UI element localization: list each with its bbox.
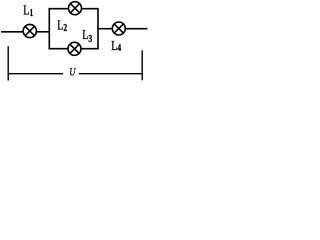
voltage bracket right bar — [141, 50, 143, 80]
voltage bracket line left — [8, 73, 64, 75]
wire top branch left — [49, 8, 69, 10]
wire L1 to node A — [36, 31, 50, 33]
wire top branch right — [81, 8, 98, 10]
lamp L1 — [23, 24, 36, 37]
wire bottom branch right — [81, 48, 98, 50]
wire left feed — [1, 31, 23, 33]
svg-text:L3: L3 — [82, 27, 92, 44]
svg-text:L1: L1 — [23, 2, 33, 18]
node A left junction vertical — [48, 8, 50, 50]
svg-text:U: U — [69, 67, 76, 79]
lamp L2 — [69, 2, 82, 15]
svg-text:L4: L4 — [111, 38, 121, 54]
node B right junction vertical — [97, 8, 99, 50]
wire right feed — [125, 28, 147, 30]
wire bottom branch left — [49, 48, 68, 50]
voltage bracket left bar — [7, 46, 9, 80]
svg-text:L2: L2 — [57, 17, 67, 33]
voltage bracket line right — [79, 73, 143, 75]
wire node B to L4 — [98, 28, 113, 30]
lamp L3 — [68, 42, 81, 55]
lamp L4 — [112, 22, 125, 35]
